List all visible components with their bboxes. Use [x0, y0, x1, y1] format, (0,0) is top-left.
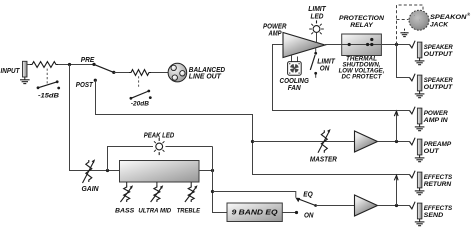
wire preamp out	[378, 141, 410, 143]
dashed wire to speakon	[397, 5, 424, 45]
svg-text:-20dB: -20dB	[131, 100, 149, 107]
svg-text:INPUT: INPUT	[1, 68, 21, 75]
op-amp buffer (effects send)	[355, 195, 378, 216]
switch LIMIT defeat	[310, 48, 317, 78]
ground (input jack)	[20, 77, 30, 84]
svg-text:-15dB: -15dB	[38, 92, 59, 99]
svg-text:LINE OUT: LINE OUT	[189, 74, 222, 81]
jack POWER AMP IN	[410, 107, 425, 131]
svg-text:RETURN: RETURN	[424, 181, 453, 188]
wire to -20dB resistor	[114, 72, 129, 74]
node (input junction)	[68, 63, 71, 66]
svg-text:POST: POST	[76, 82, 94, 89]
ground (speakon)	[400, 29, 408, 37]
svg-text:LIMIT: LIMIT	[317, 59, 335, 66]
switch -15dB	[37, 80, 61, 89]
XLR connector (balanced line out)	[168, 63, 187, 82]
node tone out	[211, 169, 214, 172]
relay K1 (protection)	[342, 34, 382, 56]
dashed link -20dB	[138, 76, 140, 87]
potentiometer ULTRA MID	[151, 182, 164, 202]
resistor (-15dB pad)	[30, 62, 58, 68]
svg-text:SEND: SEND	[424, 212, 444, 219]
jack SPEAKER OUTPUT	[410, 74, 425, 98]
svg-text:AMP: AMP	[268, 30, 282, 37]
switch PRE/POST (line out source)	[92, 63, 115, 82]
switch -20dB	[130, 90, 152, 100]
svg-text:ON: ON	[304, 213, 314, 220]
svg-text:OUT: OUT	[424, 148, 440, 155]
tone stack box	[120, 161, 200, 183]
LED (limit)	[316, 33, 318, 43]
svg-text:MASTER: MASTER	[310, 156, 337, 163]
svg-text:DC PROTECT: DC PROTECT	[342, 73, 383, 80]
wire peak LED branch	[108, 147, 154, 171]
jack EFFECTS RETURN	[410, 171, 425, 195]
svg-text:COOLING: COOLING	[280, 78, 310, 85]
LED (peak)	[158, 138, 160, 141]
node gain out / LED branch	[106, 169, 109, 172]
svg-text:ON: ON	[320, 66, 330, 73]
svg-text:BASS: BASS	[115, 208, 135, 215]
op-amp buffer (preamp out)	[355, 131, 378, 152]
cooling fan	[288, 62, 302, 76]
wire send out	[378, 205, 410, 207]
resistor (-20dB pad)	[129, 70, 151, 76]
wire power amp normal link	[396, 111, 398, 141]
wire EQ vertical	[213, 147, 228, 213]
switch EQ on/bypass	[295, 198, 317, 207]
node preamp out	[395, 140, 398, 143]
jack SPEAKER OUTPUT	[410, 41, 425, 65]
svg-text:OUTPUT: OUTPUT	[424, 51, 453, 58]
jack EFFECTS SEND	[410, 202, 425, 226]
svg-text:GAIN: GAIN	[82, 186, 100, 193]
wire to send buffer	[316, 205, 355, 207]
svg-text:LIMIT: LIMIT	[308, 6, 326, 13]
svg-text:9 BAND EQ: 9 BAND EQ	[232, 208, 278, 217]
svg-text:PEAK LED: PEAK LED	[144, 132, 175, 139]
svg-text:JACK: JACK	[430, 22, 449, 29]
wire master row	[253, 141, 355, 143]
svg-text:FAN: FAN	[288, 85, 302, 92]
node ON contact	[295, 211, 298, 214]
input jack J1	[23, 61, 28, 77]
wire main vertical (input to gain)	[70, 65, 120, 171]
dashed link -15dB	[46, 69, 48, 84]
potentiometer BASS	[120, 182, 133, 202]
wire resistor to XLR	[151, 72, 168, 74]
svg-text:ULTRA MID: ULTRA MID	[138, 208, 171, 215]
wire effects normal link	[396, 176, 398, 206]
potentiometer MASTER	[318, 129, 331, 153]
svg-text:PRE: PRE	[81, 57, 95, 64]
svg-text:RELAY: RELAY	[350, 22, 374, 29]
wire EQ bypass	[213, 192, 296, 198]
relay contacts	[348, 38, 374, 46]
svg-text:PROTECTION: PROTECTION	[339, 15, 385, 22]
wire amp to relay	[325, 44, 410, 46]
svg-text:SPEAKON: SPEAKON	[430, 14, 468, 21]
wire resistor to PRE contact	[58, 64, 94, 66]
node master branch	[251, 140, 254, 143]
svg-text:TREBLE: TREBLE	[177, 208, 201, 215]
box 9 BAND EQ	[227, 203, 282, 222]
op-amp U-power (power amp)	[283, 33, 325, 58]
speakon jack	[409, 10, 429, 30]
wire EQ box out	[282, 212, 296, 214]
potentiometer GAIN	[83, 159, 96, 183]
svg-text:EQ: EQ	[303, 191, 313, 198]
svg-text:AMP IN: AMP IN	[423, 117, 449, 124]
node send	[395, 204, 398, 207]
wire jack to resistor	[27, 64, 30, 66]
svg-text:OUTPUT: OUTPUT	[424, 84, 453, 91]
wire POST tap	[96, 80, 410, 174]
wire speaker output 2	[397, 45, 410, 78]
node bypass branch	[211, 190, 214, 193]
cooling fan wires	[291, 55, 293, 62]
svg-text:LED: LED	[311, 13, 324, 20]
wire tone out	[199, 170, 213, 172]
node speaker junction	[395, 43, 398, 46]
potentiometer TREBLE	[185, 182, 198, 202]
jack PREAMP OUT	[410, 138, 425, 162]
wire power amp in	[273, 45, 410, 111]
